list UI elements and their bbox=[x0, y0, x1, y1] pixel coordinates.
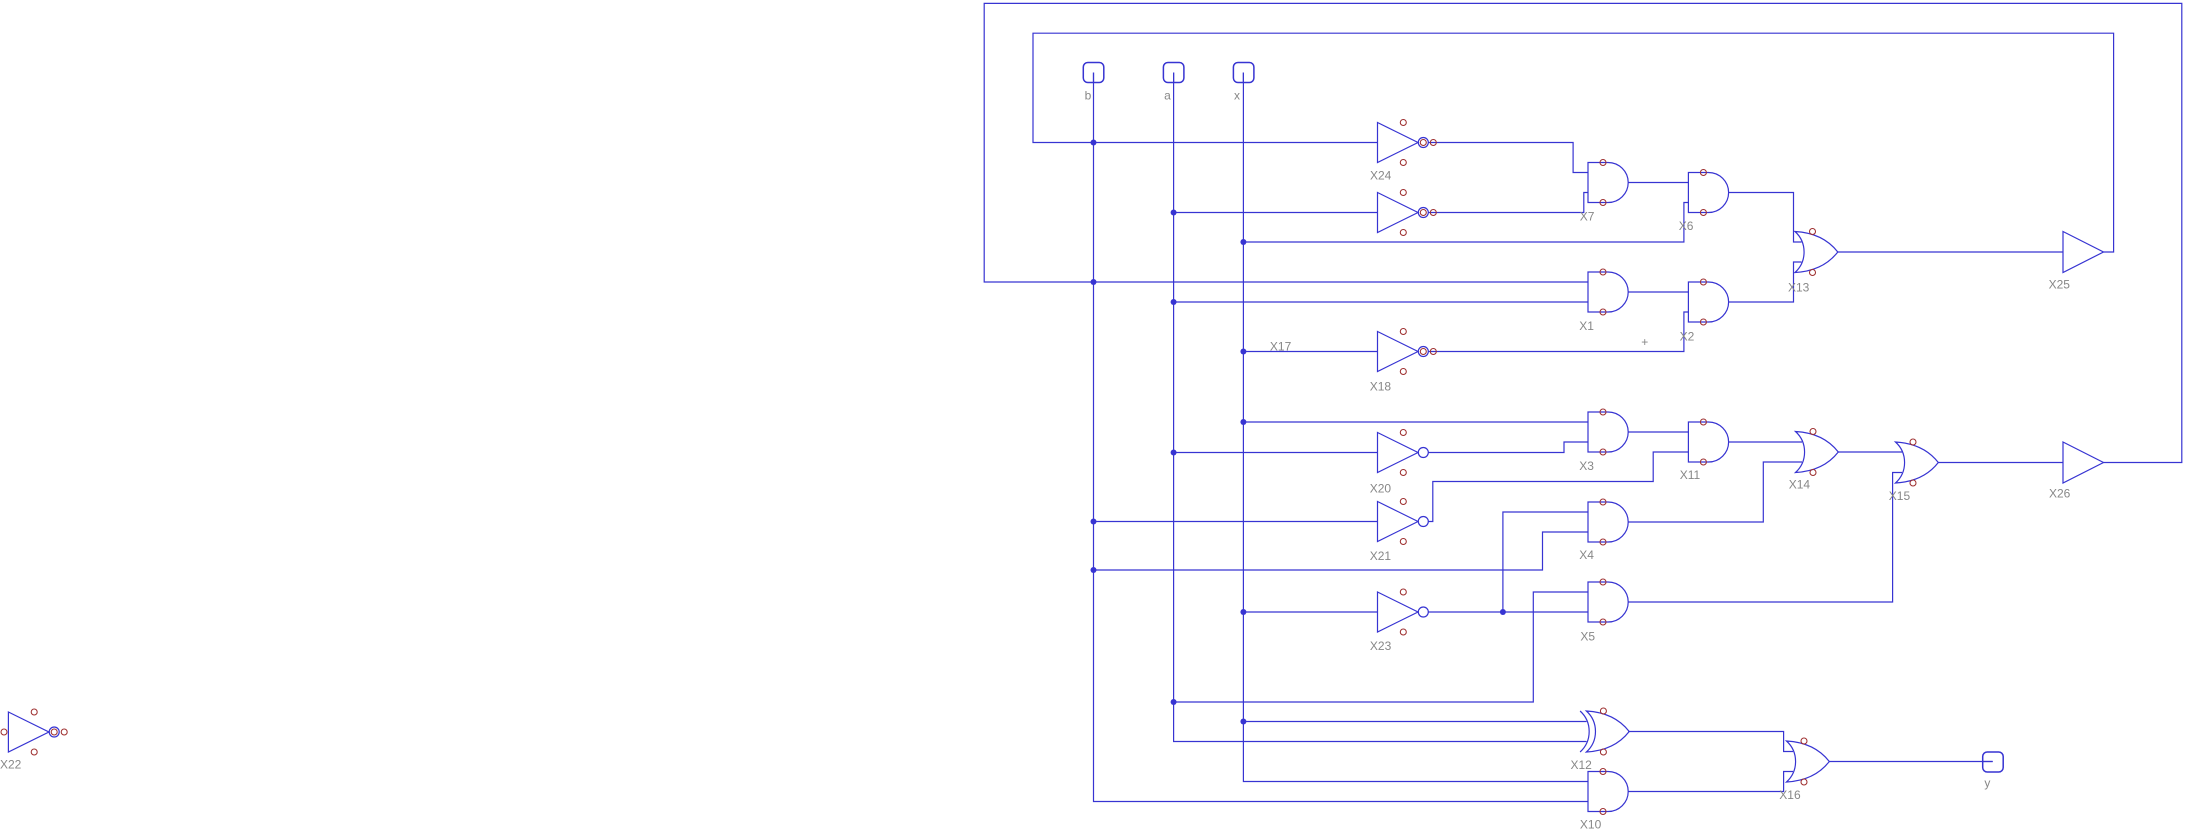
wire X12 output to X16 top input bbox=[1628, 732, 1793, 752]
svg-text:X1: X1 bbox=[1579, 319, 1594, 333]
wire X5 output to X15 bottom input bbox=[1628, 473, 1902, 603]
or gate X16 bbox=[1779, 738, 1829, 802]
wire X24 output to X7 top input bbox=[1429, 143, 1589, 173]
wire X21 output to X11 bottom input bbox=[1429, 452, 1689, 522]
inverter X23 bbox=[1370, 589, 1428, 653]
wire X3 output to X11 top input bbox=[1628, 431, 1688, 433]
wire branch X23 output up to X4 top input bbox=[1503, 512, 1588, 612]
inverter X20 bbox=[1370, 430, 1429, 496]
wire a to X20 input bbox=[1174, 452, 1378, 454]
svg-text:X25: X25 bbox=[2049, 278, 2071, 292]
junction a / X20 input line bbox=[1171, 450, 1177, 456]
wire net X17 from x to X18 input bbox=[1243, 351, 1377, 353]
svg-text:X15: X15 bbox=[1889, 489, 1911, 503]
svg-text:X16: X16 bbox=[1779, 788, 1801, 802]
wire x to X23 input bbox=[1243, 611, 1377, 613]
wire x rail down to X10 top input bbox=[1243, 73, 1588, 782]
inverter (unlabeled) bbox=[1378, 190, 1437, 236]
svg-text:b: b bbox=[1085, 89, 1092, 103]
svg-text:X6: X6 bbox=[1679, 219, 1694, 233]
wire X11 output to X14 top input bbox=[1729, 441, 1802, 443]
inverter X24 bbox=[1370, 120, 1436, 183]
wire a rail down to X12 bottom input bbox=[1174, 73, 1587, 742]
wire a to unnamed inverter input bbox=[1174, 212, 1378, 214]
wire X14 output to X15 top input bbox=[1838, 451, 1902, 453]
svg-text:+: + bbox=[1641, 335, 1648, 349]
inverter X22 (unconnected) bbox=[0, 709, 67, 772]
wire X4 output to X14 bottom input bbox=[1628, 462, 1802, 522]
wire inverter output to X7 bottom input bbox=[1429, 193, 1589, 213]
svg-text:X24: X24 bbox=[1370, 169, 1392, 183]
or gate X15 bbox=[1889, 439, 1939, 503]
wire X20 output to X3 bottom input bbox=[1429, 442, 1589, 453]
svg-text:X22: X22 bbox=[0, 758, 22, 772]
or gate X14 bbox=[1789, 429, 1839, 492]
svg-text:X21: X21 bbox=[1370, 549, 1392, 563]
svg-text:x: x bbox=[1234, 89, 1240, 103]
svg-text:X3: X3 bbox=[1579, 459, 1594, 473]
junction a / X5 top line bbox=[1171, 699, 1177, 705]
wire a to X1 bottom input bbox=[1174, 301, 1588, 303]
and gate X5 bbox=[1580, 579, 1628, 644]
svg-text:X26: X26 bbox=[2049, 487, 2071, 501]
inverter X18 bbox=[1370, 329, 1437, 394]
output port y bbox=[1983, 752, 2004, 790]
wire x to X6 bottom input bbox=[1243, 203, 1688, 243]
wire X7 output to X6 top input bbox=[1628, 182, 1688, 184]
junction b / X4 bottom line bbox=[1091, 567, 1097, 573]
svg-text:X14: X14 bbox=[1789, 478, 1811, 492]
wire X2 output to X13 bottom input bbox=[1729, 262, 1802, 302]
input port x bbox=[1233, 63, 1254, 103]
svg-text:X11: X11 bbox=[1680, 468, 1701, 482]
svg-text:X17: X17 bbox=[1270, 340, 1292, 354]
xor gate X12 bbox=[1571, 708, 1630, 772]
junction b / X24 input line bbox=[1091, 140, 1097, 146]
svg-text:X12: X12 bbox=[1571, 758, 1593, 772]
and gate X2 bbox=[1680, 279, 1729, 344]
or gate X13 bbox=[1788, 229, 1838, 295]
junction b / X21 input line bbox=[1091, 519, 1097, 525]
wire X26 output feedback loop to X1 top input bbox=[984, 3, 2182, 462]
wire X1 output to X2 top input bbox=[1628, 291, 1688, 293]
wire X16 output to port y bbox=[1829, 761, 1992, 763]
wire X10 output to X16 bottom input bbox=[1628, 772, 1793, 792]
and gate X11 bbox=[1680, 419, 1729, 482]
svg-text:X18: X18 bbox=[1370, 380, 1392, 394]
svg-text:X5: X5 bbox=[1580, 630, 1595, 644]
wire X25 output feedback loop to X24 input bbox=[1033, 33, 2114, 252]
and gate X7 bbox=[1580, 160, 1629, 224]
wire X23 output to X5 bottom input bbox=[1429, 611, 1589, 613]
junction x / X3 top line bbox=[1240, 419, 1246, 425]
svg-text:y: y bbox=[1984, 776, 1990, 790]
svg-text:X23: X23 bbox=[1370, 639, 1392, 653]
junction x / X6 bottom line bbox=[1240, 239, 1246, 245]
svg-text:X7: X7 bbox=[1580, 210, 1595, 224]
wire a to X5 top input bbox=[1174, 592, 1588, 702]
svg-text:X20: X20 bbox=[1370, 482, 1392, 496]
wire x to X12 top input bbox=[1243, 721, 1586, 723]
svg-text:X10: X10 bbox=[1580, 818, 1602, 832]
junction x / X23 input line bbox=[1240, 609, 1246, 615]
and gate X1 bbox=[1579, 269, 1628, 333]
wire X18 output to X2 bottom input bbox=[1429, 312, 1689, 352]
inverter X21 bbox=[1370, 499, 1429, 564]
input port a bbox=[1163, 63, 1184, 103]
svg-text:a: a bbox=[1164, 89, 1171, 103]
input port b bbox=[1083, 63, 1104, 103]
junction X23 output / X4 top branch bbox=[1500, 609, 1506, 615]
wire b rail down to X10 bottom input bbox=[1094, 73, 1589, 802]
and gate X10 bbox=[1580, 769, 1628, 832]
junction a / X1 bottom line bbox=[1171, 299, 1177, 305]
svg-text:X2: X2 bbox=[1680, 330, 1695, 344]
and gate X6 bbox=[1679, 170, 1729, 234]
junction a / inverter input line bbox=[1171, 210, 1177, 216]
and gate X4 bbox=[1579, 499, 1628, 562]
wire x to X3 top input bbox=[1243, 421, 1588, 423]
buffer X25 bbox=[2049, 232, 2104, 292]
svg-text:X4: X4 bbox=[1579, 548, 1594, 562]
wire X15 output to X26 input bbox=[1938, 462, 2063, 464]
wire X6 output to X13 top input bbox=[1729, 193, 1802, 243]
svg-text:X13: X13 bbox=[1788, 281, 1810, 295]
junction b / X26 feedback line bbox=[1091, 279, 1097, 285]
and gate X3 bbox=[1579, 409, 1628, 473]
wire b to X4 bottom input bbox=[1094, 532, 1589, 570]
wire b to X21 input bbox=[1094, 521, 1378, 523]
junction x / X18 input line bbox=[1240, 349, 1246, 355]
buffer X26 bbox=[2049, 442, 2104, 501]
wire X13 output to X25 input bbox=[1838, 251, 2063, 253]
junction x / X12 top line bbox=[1240, 719, 1246, 725]
